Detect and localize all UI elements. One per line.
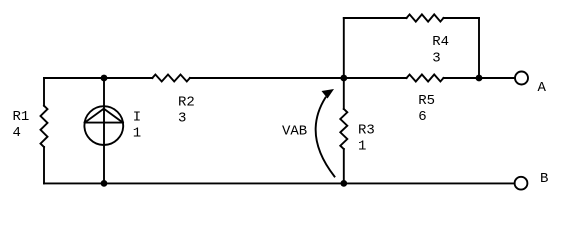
label R4: [432, 34, 449, 50]
svg-text:3: 3: [432, 50, 440, 66]
wire: top branch horizontal right of R4: [444, 17, 480, 19]
svg-text:6: 6: [418, 109, 426, 125]
wire: R2 right to middle node: [190, 77, 344, 79]
label R3: [358, 123, 375, 139]
label I (current source): [133, 110, 141, 126]
wire: right node to terminal A: [479, 77, 515, 79]
resistor R1: [41, 106, 48, 147]
terminal B: [515, 177, 528, 190]
wire: R5 right to right node: [444, 77, 480, 79]
value 4 (R1): [13, 125, 21, 141]
svg-text:R1: R1: [13, 109, 30, 125]
svg-text:1: 1: [358, 139, 366, 155]
svg-text:R5: R5: [418, 93, 435, 109]
VAB arrow arc: [316, 98, 335, 177]
svg-text:R4: R4: [432, 34, 449, 50]
wire: top branch horizontal left of R4: [344, 17, 407, 19]
value 1 (current source): [133, 126, 141, 142]
svg-text:3: 3: [178, 110, 186, 126]
svg-text:B: B: [540, 171, 548, 187]
svg-text:A: A: [538, 80, 547, 96]
svg-text:VAB: VAB: [282, 123, 307, 139]
wire: top branch right vertical: [478, 18, 480, 78]
resistor R5: [407, 75, 444, 82]
label R2: [178, 94, 195, 110]
wire: middle node to R5 left: [344, 77, 407, 79]
value 3 (R4): [432, 50, 440, 66]
wire: bottom rail to terminal B: [44, 182, 515, 184]
value 3 (R2): [178, 110, 186, 126]
wire: top branch left vertical: [343, 18, 345, 78]
current source I1: [84, 106, 123, 145]
node: junction at current source top: [101, 75, 108, 82]
label terminal B: [540, 171, 548, 187]
node: junction at current source bottom: [101, 180, 108, 187]
wire: main top-left horizontal (node between R1 top and R2 left): [44, 77, 152, 79]
svg-text:I: I: [133, 110, 141, 126]
svg-text:R2: R2: [178, 94, 195, 110]
label R1: [13, 109, 30, 125]
node: junction at R3 top: [340, 75, 347, 82]
svg-text:1: 1: [133, 126, 141, 142]
wire: left vertical below R1: [43, 147, 45, 183]
terminal A: [515, 72, 528, 85]
wire: current source branch: [103, 78, 105, 183]
wire: R3 branch above resistor: [343, 78, 345, 109]
resistor R2: [152, 75, 190, 82]
node: junction at R3 bottom: [340, 180, 347, 187]
value 1 (R3): [358, 139, 366, 155]
VAB arrowhead: [322, 89, 335, 99]
value 6 (R5): [418, 109, 426, 125]
svg-text:R3: R3: [358, 123, 375, 139]
resistor R3: [340, 109, 347, 149]
svg-text:4: 4: [13, 125, 21, 141]
resistor R4: [407, 14, 444, 21]
label terminal A: [538, 80, 547, 96]
label R5: [418, 93, 435, 109]
node: junction at right branch: [476, 75, 483, 82]
wire: R3 branch below resistor: [343, 149, 345, 183]
wire: left vertical above R1: [43, 78, 45, 106]
label VAB: [282, 123, 307, 139]
